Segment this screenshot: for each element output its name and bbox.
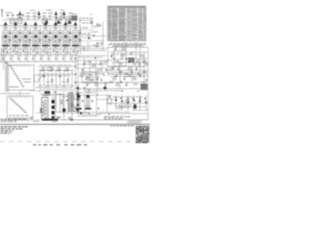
valve V7 cathode — [64, 35, 67, 38]
wire r h55 — [76, 55, 107, 57]
capacitor C87 — [99, 63, 102, 65]
wire intercell tie 3b — [29, 39, 33, 41]
wire ladder drop 1 — [39, 70, 41, 93]
label bb text93 — [76, 91, 96, 94]
resistor Rr71 — [128, 75, 131, 76]
capacitor cell C3a — [29, 32, 32, 34]
valve V4 cathode — [34, 35, 37, 38]
capacitor C88 — [123, 78, 126, 80]
wire cell wire 2b — [19, 42, 21, 47]
resistor ladder R31 — [41, 70, 44, 71]
resistor R61 — [95, 84, 98, 85]
wire chain vert — [75, 55, 77, 92]
junction jr2 — [139, 65, 142, 68]
wire terminal T1 lead — [7, 16, 9, 19]
resistor R56 — [143, 61, 146, 62]
resistor Rm70 — [88, 61, 91, 62]
terminal strip TS1 — [42, 119, 58, 121]
wire conv drop — [87, 41, 89, 51]
junction ladder j2 — [63, 84, 66, 87]
label bb val3 — [84, 105, 89, 108]
capacitor V14 bypass C — [91, 100, 94, 102]
label bb text97 — [113, 95, 142, 98]
wire conv wire b — [91, 35, 106, 37]
value list column — [68, 93, 76, 112]
label C5 value — [59, 13, 63, 14]
wire ladder vmid 4 — [67, 67, 69, 86]
label bottom part text — [33, 120, 39, 123]
wire ladder rail — [38, 69, 74, 71]
capacitor Cm87 — [145, 79, 148, 81]
wire V1 cathode lead — [5, 46, 7, 54]
label right mesh text5 — [84, 89, 124, 92]
label C85 value — [136, 66, 139, 69]
resistor cell R8a — [79, 39, 80, 42]
coil symbol LA3 — [54, 11, 58, 19]
wire intercell vert 5 — [50, 26, 52, 55]
resistor R54 — [110, 68, 113, 69]
label S1 label — [9, 86, 19, 89]
label C6 value — [68, 13, 72, 14]
tube V9 mixer — [82, 33, 87, 38]
wire cell wire 3 — [29, 29, 31, 32]
capacitor ps C62 — [66, 99, 68, 102]
wire S1 left bundle b — [6, 62, 8, 92]
label top text b — [46, 9, 52, 12]
label footnote 1 — [1, 126, 28, 127]
label C2 name — [33, 17, 36, 20]
resistor cathode R2k — [17, 51, 18, 54]
label C82 value — [131, 51, 134, 54]
wire bus drop x25.5 — [25, 26, 27, 30]
label C1 value — [26, 13, 30, 14]
label C83 value — [137, 59, 140, 62]
transformer core T2 — [45, 20, 49, 24]
coil symbol LA2 — [37, 11, 41, 19]
wire ps vert a — [54, 95, 56, 117]
AF pot — [104, 87, 107, 90]
capacitor Cm79 — [105, 69, 108, 71]
wire r vert 10 — [131, 66, 133, 82]
terminal T4 — [22, 14, 24, 15]
capacitor C92 — [96, 78, 99, 80]
junction ladder j1 — [47, 84, 50, 87]
wire ladder h74 — [38, 73, 74, 75]
valve V3 envelope — [23, 30, 29, 44]
ground gnd r4 — [137, 90, 139, 92]
parts list table — [108, 6, 147, 41]
component group row2 2 — [10, 57, 12, 60]
label row2 label 9 — [62, 55, 67, 58]
capacitor cathode C6k — [53, 50, 55, 53]
capacitor C76 — [109, 95, 111, 98]
wire AF vert right — [97, 70, 99, 96]
label R53 value — [121, 53, 124, 56]
component group row2 6 — [40, 57, 42, 60]
wire intercell tie 6b — [59, 39, 63, 41]
label C84 value — [118, 66, 121, 69]
label C90 value — [105, 82, 108, 85]
valve V8 screen — [75, 32, 77, 44]
wire bb vert 1 — [115, 95, 117, 111]
label note switch position — [1, 119, 27, 120]
wire ladder vmid 1 — [43, 67, 45, 86]
wire bb vert 6 — [145, 95, 147, 111]
label V6 pin text — [53, 46, 59, 49]
wire cell wire 5 — [49, 29, 51, 32]
capacitor cell C1a — [9, 32, 12, 34]
switch S1 side box — [34, 75, 39, 82]
label right mesh text2 — [112, 61, 142, 64]
resistor ladder R34 — [65, 70, 68, 71]
label V4 pin text — [33, 46, 39, 49]
label row2 label 3 — [17, 55, 22, 58]
resistor R23 — [83, 47, 84, 50]
transformer core above V5 — [44, 22, 48, 26]
label table footer text — [110, 42, 146, 45]
terminal T1 — [7, 14, 9, 15]
junction top node — [91, 14, 92, 15]
label footnote 3 — [1, 131, 14, 132]
label C4 value — [48, 13, 52, 14]
wire trimmer C3 stem — [43, 18, 45, 20]
resistor cell R3a — [29, 39, 30, 42]
wire r h72 — [80, 71, 148, 73]
valve V5 base — [42, 45, 49, 47]
valve V7 anode — [66, 32, 68, 44]
label S2 label — [9, 114, 28, 117]
wire r vert 11 — [135, 42, 137, 58]
component group row2 7 — [48, 57, 50, 60]
component group bottom part d — [69, 117, 71, 120]
switch S1 contacts — [10, 66, 24, 89]
wire cell wire 4b — [39, 42, 41, 47]
capacitor cathode C8k — [73, 50, 75, 53]
label R63 value — [86, 76, 89, 79]
wire V5 cathode lead — [45, 46, 47, 54]
issue data table — [136, 126, 150, 144]
resistor R51 — [122, 48, 125, 49]
wire aerial bus — [2, 19, 77, 21]
valve V4 grid — [33, 32, 35, 44]
capacitor Cr72 — [139, 75, 142, 77]
resistor cathode R1k — [7, 51, 8, 54]
label ps label2 — [62, 95, 69, 98]
wire cell wire 1 — [9, 29, 11, 32]
label right mesh text7 — [128, 59, 146, 62]
valve V5 grid — [43, 32, 45, 44]
wire S2 lead 2 — [15, 118, 17, 122]
IF can right — [128, 58, 135, 63]
IF can IFT4 — [56, 19, 61, 24]
label C88 value — [124, 76, 127, 79]
wire IFT3 lead — [25, 25, 27, 30]
valve V1 cathode — [4, 35, 7, 38]
coil L1 can — [72, 16, 78, 21]
resistor R35 — [51, 79, 52, 82]
wire row2 drop 2 — [12, 60, 14, 61]
wire V8 cathode lead — [75, 46, 77, 54]
AF box — [82, 72, 96, 82]
component group bottom part c — [58, 117, 60, 120]
transformer core above V6 — [54, 22, 58, 26]
T1 primary winding — [43, 99, 46, 117]
wire row2 drop 1 — [5, 60, 7, 61]
wire r vert 5 — [101, 60, 103, 72]
wire ladder drop 4 — [63, 70, 65, 93]
valve V1 heater — [5, 41, 7, 43]
component group row2 8 — [55, 57, 57, 60]
label row2 label 10 — [70, 55, 75, 58]
junction ps j3 — [59, 93, 62, 96]
resistor R39 wirewound — [52, 116, 55, 119]
wire T1 lead c — [52, 94, 54, 100]
wire trimmer C1 stem — [27, 18, 29, 20]
valve V1 anode — [6, 32, 8, 44]
label note switch position2 — [1, 120, 17, 123]
wire row2 drop 7 — [50, 60, 52, 61]
relay K1 — [45, 91, 51, 94]
capacitor C33 padder — [96, 45, 98, 48]
ground gnd r1 — [89, 74, 91, 76]
label osc value3 — [93, 44, 98, 47]
label note voltages — [104, 115, 130, 118]
wire r vert 14 — [147, 47, 149, 120]
label V9 label — [82, 26, 88, 29]
wire intercell vert 7 — [70, 26, 72, 55]
label ladder labels — [40, 64, 72, 67]
label mid text46 — [78, 45, 102, 48]
wire r h52 — [110, 51, 148, 53]
label top band fill text — [24, 15, 70, 18]
valve V5 heater — [45, 41, 47, 43]
wire cell wire 5b — [49, 42, 51, 47]
wire r h70b — [107, 69, 148, 71]
label table caption — [110, 124, 134, 127]
capacitor chain C52 — [75, 73, 77, 76]
left stack part 2 — [77, 93, 80, 95]
wire IFT8 lead — [75, 25, 77, 30]
component group bottom part a — [31, 117, 33, 120]
resistor bb R62 — [127, 98, 128, 101]
capacitor cell C8a — [79, 32, 82, 34]
wire ladder drop 2 — [47, 70, 49, 93]
capacitor cathode C4k — [33, 50, 35, 53]
wire ladder vmid 3 — [59, 67, 61, 86]
resistor cell R4a — [39, 39, 40, 42]
label top mid text — [79, 17, 93, 20]
wire bb tie1 — [96, 99, 114, 101]
label row2 label 1 — [2, 55, 7, 58]
label R62 value — [116, 82, 119, 85]
label right text44 — [108, 43, 146, 46]
wire r vert 7 — [111, 52, 113, 60]
label bb text114 — [80, 113, 102, 116]
component group osc top b — [97, 23, 99, 26]
wire ps vert c — [63, 95, 65, 120]
valve V5 envelope — [43, 30, 49, 44]
wire row2 drop 8 — [57, 60, 59, 61]
wire ladder drop 5 — [71, 70, 73, 93]
label C5 name — [60, 17, 63, 20]
wire ladder h3 — [30, 90, 76, 92]
label C92 value — [97, 76, 100, 79]
resistor R60 — [133, 78, 136, 79]
output T2 blob — [141, 84, 148, 91]
wire r vert 2 — [83, 58, 85, 77]
capacitor Cr66 — [112, 67, 115, 69]
valve V6 heater — [55, 41, 57, 43]
mains transformer T1 frame — [42, 98, 49, 120]
terminal T2 — [12, 14, 14, 15]
wire cell wire 1b — [9, 42, 11, 47]
valve V3 cathode — [24, 35, 27, 38]
capacitor cathode C3k — [23, 50, 25, 53]
wire IFT4 lead — [35, 25, 37, 30]
label bb values2 — [116, 106, 130, 109]
resistor Rr67 — [119, 71, 122, 72]
tube V16 indicator — [125, 99, 129, 103]
left stack part 5 — [77, 109, 80, 111]
label bb values — [114, 104, 131, 107]
resistor Rr63 — [133, 63, 136, 64]
wire intercell tie 6a — [59, 33, 63, 35]
IF can IFT2 — [17, 19, 22, 24]
label T2 label — [141, 81, 147, 84]
label V2 pin text — [13, 46, 19, 49]
wire osc vert3 — [102, 22, 104, 51]
wire IFT2 lead — [15, 25, 17, 30]
pot VR1 arrow — [39, 75, 44, 81]
capacitor C83 — [136, 61, 139, 63]
capacitor C84 — [117, 68, 120, 70]
choke CH1 — [63, 109, 66, 112]
component group row2 1 — [3, 57, 5, 60]
wire r vert 8 — [119, 66, 121, 88]
wire IFT6 lead — [55, 25, 57, 30]
wire bb left vert 1 — [84, 94, 86, 113]
valve V6 base — [52, 45, 59, 47]
label R59 value — [113, 76, 116, 79]
label C81 value — [115, 46, 118, 49]
capacitor cell C5a — [49, 32, 52, 34]
capacitor C62 electrolytic — [52, 111, 55, 114]
label C3 value — [42, 13, 46, 14]
wire cells baseline — [0, 54, 77, 56]
label stage band value row — [1, 51, 75, 54]
capacitor cell C2a — [19, 32, 22, 34]
valve V13 anode cap — [77, 95, 81, 98]
meter M1 arc — [47, 67, 54, 71]
shade band — [40, 89, 80, 91]
capacitor Cm83 — [100, 79, 103, 81]
capacitor C75 — [97, 108, 100, 110]
transformer core above V4 — [34, 22, 38, 26]
label converter values — [92, 31, 98, 34]
label ladder R34 value — [65, 67, 68, 70]
component group row2 10 — [70, 57, 72, 60]
wire r h62b — [127, 61, 148, 63]
wire r h66 — [107, 65, 148, 67]
wire r h76 — [110, 75, 148, 77]
label ladder R33 value — [57, 67, 60, 70]
wire intercell vert 8 — [80, 26, 82, 55]
wire bus drop x5.5 — [5, 26, 7, 30]
label row2 label 2 — [10, 55, 15, 58]
label V8 pin text — [73, 46, 79, 49]
wire row2 baseline — [0, 61, 77, 63]
capacitor Cm77 — [81, 69, 84, 71]
label table footer text2 — [114, 44, 142, 47]
wire cell wire 2 — [19, 29, 21, 32]
label ladder text87 — [36, 86, 72, 89]
label V5 pin text — [43, 46, 49, 49]
label bottom part text2 — [52, 120, 57, 123]
capacitor trimmer C1 — [27, 15, 29, 18]
osc coil box — [114, 51, 126, 67]
component group AF cluster a — [84, 87, 86, 90]
wire r h47 — [107, 46, 148, 48]
wire cell wire 8 — [79, 29, 81, 32]
wire bus drop x65.5 — [65, 26, 67, 30]
capacitor cell C4a — [39, 32, 42, 34]
S1 top contact ticks — [9, 65, 30, 67]
wire intercell tie 1b — [9, 39, 13, 41]
valve V6 grid — [53, 32, 55, 44]
capacitor trimmer C6 — [69, 15, 71, 18]
label osc top text — [93, 25, 99, 28]
wire bb h110r — [132, 109, 148, 111]
wire r vert 3 — [89, 60, 91, 72]
transformer core above V1 — [4, 22, 8, 26]
wire left v2 — [3, 48, 5, 70]
resistor cathode R6k — [57, 51, 58, 54]
component group AF cluster b — [88, 89, 90, 92]
wire ps rect lead — [62, 112, 80, 114]
valve V6 cathode — [54, 35, 57, 38]
wire T1 lead b — [46, 93, 48, 98]
capacitor trimmer C2 — [33, 15, 35, 18]
valve V2 screen — [15, 32, 17, 44]
resistor cathode R3k — [27, 51, 28, 54]
wire intercell tie 8b — [79, 39, 83, 41]
resistor cell R7a — [69, 39, 70, 42]
capacitor C90 — [104, 84, 107, 86]
valve V3 heater — [25, 41, 27, 43]
capacitor C45 — [43, 75, 45, 78]
wire V7 cathode lead — [65, 46, 67, 54]
label right mesh text6 — [112, 53, 142, 56]
page caption text — [33, 144, 87, 145]
label stage band pin row — [1, 48, 75, 51]
wire intercell vert 6 — [60, 26, 62, 55]
label V13 type — [76, 91, 82, 94]
resistor ladder R33 — [57, 70, 60, 71]
label row2 label 8 — [55, 55, 60, 58]
wire AF h83 — [82, 82, 110, 84]
coil symbol LA1 — [18, 11, 22, 19]
capacitor cathode C7k — [63, 50, 65, 53]
wire bb h103 — [107, 102, 148, 104]
valve V6 screen — [55, 32, 57, 44]
resistor Rm80 — [125, 73, 128, 74]
capacitor Cr68 — [130, 71, 133, 73]
valve V2 grid — [13, 32, 15, 44]
label R51 value — [122, 46, 125, 49]
valve V1 base — [2, 45, 9, 47]
wire grid bus — [0, 25, 77, 27]
resistor Rr61 — [120, 58, 123, 59]
